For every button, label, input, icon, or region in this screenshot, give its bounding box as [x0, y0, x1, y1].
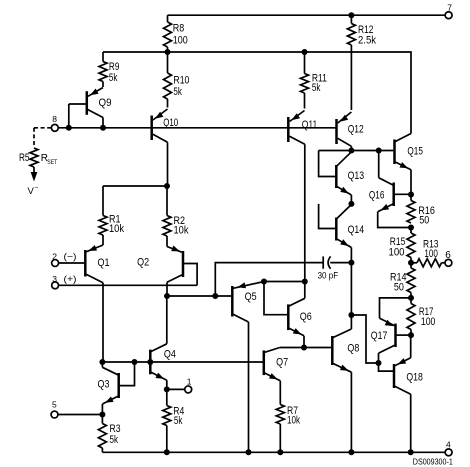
transistor Q18: [379, 335, 423, 452]
node Q16 collector: [376, 148, 382, 154]
transistor Q2: [137, 246, 197, 297]
svg-text:R8: R8: [173, 23, 185, 35]
svg-text:10k: 10k: [287, 415, 300, 427]
svg-text:7: 7: [447, 3, 452, 13]
svg-text:100: 100: [389, 247, 405, 259]
node Q4 emitter / R4: [164, 386, 170, 392]
svg-text:5k: 5k: [174, 415, 183, 427]
node Q8-cap-Q18 tap: [348, 312, 354, 318]
resistor R5 RSET: [19, 148, 57, 167]
svg-text:Q1: Q1: [98, 257, 110, 269]
node Q8 emitter bottom: [348, 449, 354, 455]
wire to pin 1: [167, 388, 185, 390]
transistor Q15: [395, 134, 423, 195]
svg-text:Q4: Q4: [164, 349, 176, 361]
node R11 top: [302, 49, 308, 55]
node Q9 collector: [100, 125, 106, 131]
transistor Q16: [369, 151, 411, 228]
pin 2 inverting input: [52, 252, 77, 267]
resistor R17: [407, 298, 435, 335]
transistor Q6: [264, 282, 312, 348]
wire Q4-Q7 base rail: [102, 361, 262, 363]
node Q6 emitter: [301, 345, 307, 351]
svg-text:5k: 5k: [312, 82, 321, 94]
node Q3 base: [132, 359, 138, 365]
node R16-R15: [408, 225, 414, 231]
svg-text:5: 5: [52, 400, 57, 410]
svg-text:Q18: Q18: [406, 372, 423, 384]
svg-text:5k: 5k: [109, 72, 118, 84]
node R2 top: [164, 183, 170, 189]
wire bias rail (R8/R9/R11/Q15): [103, 52, 411, 134]
transistor Q9: [69, 88, 112, 128]
svg-text:30 pF: 30 pF: [318, 271, 339, 282]
svg-text:Q16: Q16: [369, 190, 385, 202]
node Q4 base: [147, 359, 153, 365]
node comp tap: [212, 293, 218, 299]
resistor R8: [164, 15, 188, 52]
node R8-R10: [165, 49, 171, 55]
current arrow to V-: [31, 167, 38, 182]
label DS009300-1: [413, 458, 453, 467]
resistor R11: [301, 52, 327, 109]
wire Q10 collector node: [103, 185, 167, 187]
svg-text:5k: 5k: [110, 434, 119, 446]
node Q18 collector bottom: [408, 449, 414, 455]
label V-: [28, 184, 39, 197]
transistor Q5: [232, 282, 264, 453]
wire bias line pin8-Q12 base: [58, 127, 336, 129]
resistor R12: [347, 15, 376, 46]
node Q3 emitter / R3: [99, 412, 105, 418]
svg-text:R10: R10: [173, 75, 189, 87]
transistor Q8: [332, 263, 359, 453]
svg-text:SET: SET: [47, 159, 57, 166]
svg-text:Q14: Q14: [348, 224, 365, 236]
node Q1 collector rail: [99, 359, 105, 365]
svg-text:5k: 5k: [173, 86, 182, 98]
node R4 bottom: [164, 449, 170, 455]
node R14-R17: [408, 295, 414, 301]
transistor Q4: [150, 296, 176, 389]
pin 5: [51, 400, 58, 418]
svg-text:Q3: Q3: [98, 379, 110, 391]
svg-text:Q12: Q12: [348, 124, 364, 136]
wire R12 to Q12 emitter: [350, 45, 352, 110]
node cap-Q8: [348, 260, 354, 266]
svg-text:Q13: Q13: [348, 170, 365, 182]
capacitor 30pF: [318, 256, 352, 281]
svg-text:Q6: Q6: [300, 311, 312, 323]
node Q13-Q14: [348, 201, 354, 207]
svg-text:DS009300-1: DS009300-1: [413, 458, 453, 467]
pin 8: [51, 114, 58, 131]
svg-text:10k: 10k: [109, 223, 124, 235]
node R17-Q17 base: [408, 332, 414, 338]
svg-text:100: 100: [173, 35, 188, 47]
transistor Q12: [337, 112, 364, 151]
svg-text:(+): (+): [64, 274, 77, 284]
transistor Q10: [152, 109, 179, 186]
node Q12 collector: [348, 148, 354, 154]
svg-text:Q15: Q15: [407, 146, 423, 158]
node Q11 collector: [302, 279, 308, 285]
transistor Q14: [319, 204, 365, 263]
wire Q7 collector to Q8 base: [280, 347, 331, 349]
svg-text:4: 4: [446, 440, 451, 450]
pin 1: [185, 377, 192, 393]
wire Q15 base line: [319, 150, 394, 152]
resistor R4: [163, 389, 185, 452]
svg-text:Q17: Q17: [371, 330, 388, 342]
pin 6 output: [445, 250, 452, 266]
node Q17 collector / Q18 base: [376, 360, 382, 366]
node Q6 base: [261, 279, 267, 285]
svg-text:−: −: [34, 184, 38, 191]
transistor Q11: [288, 111, 317, 282]
resistor R3: [98, 415, 120, 453]
wire Q2-Q4 collector node: [167, 295, 231, 297]
svg-text:2: 2: [52, 252, 57, 262]
resistor R2: [163, 186, 189, 247]
node Q5 collector bottom: [246, 449, 252, 455]
svg-text:Q8: Q8: [347, 343, 359, 355]
transistor Q7: [264, 348, 288, 405]
svg-text:3: 3: [52, 274, 57, 284]
resistor R1: [99, 186, 124, 245]
node Q15 emitter / R16 top: [408, 192, 414, 198]
svg-text:Q9: Q9: [99, 97, 112, 109]
wire Q18 base jog: [351, 315, 378, 363]
svg-text:6: 6: [445, 250, 451, 261]
svg-text:Q7: Q7: [276, 357, 288, 369]
svg-text:1: 1: [187, 377, 192, 387]
resistor R7: [276, 405, 300, 453]
wire Q5 emitter node: [264, 281, 305, 283]
wire pin3 to Q2 base: [59, 284, 197, 286]
node R12-V+: [348, 12, 354, 18]
pin 4: [445, 440, 452, 456]
resistor R16: [407, 195, 435, 227]
svg-text:50: 50: [419, 215, 429, 227]
svg-text:100: 100: [424, 248, 438, 260]
svg-text:2.5k: 2.5k: [358, 35, 376, 47]
resistor R14: [390, 263, 415, 298]
svg-text:10k: 10k: [174, 225, 189, 237]
node output tap: [408, 260, 414, 266]
wire V+ rail to pin 7: [168, 14, 446, 16]
svg-text:Q5: Q5: [245, 291, 257, 303]
svg-text:Q11: Q11: [302, 119, 318, 131]
pin 3 non-inverting input: [52, 274, 77, 289]
wire V- rail to pin 4: [102, 451, 445, 453]
svg-text:100: 100: [421, 316, 436, 328]
transistor Q3: [98, 362, 135, 415]
svg-text:Q2: Q2: [137, 257, 149, 269]
resistor R13: [411, 239, 445, 267]
wire to compensation cap: [215, 263, 323, 296]
resistor R9: [99, 52, 119, 87]
resistor R10: [164, 52, 190, 108]
svg-text:8: 8: [52, 114, 57, 124]
wire dashed to RSET: [34, 128, 51, 147]
pin 7: [445, 3, 452, 19]
svg-text:Q10: Q10: [163, 117, 178, 129]
wire pin5 to Q3 emitter: [58, 414, 102, 416]
transistor Q1: [59, 245, 110, 362]
node R7 bottom: [277, 449, 283, 455]
resistor R15: [389, 228, 416, 263]
transistor Q13: [319, 151, 365, 204]
transistor Q17: [371, 298, 411, 363]
svg-text:50: 50: [394, 282, 404, 294]
node Q9 base: [66, 125, 72, 131]
svg-text:R5: R5: [19, 152, 30, 164]
svg-text:(−): (−): [64, 252, 77, 262]
node Q2 collector: [164, 293, 170, 299]
